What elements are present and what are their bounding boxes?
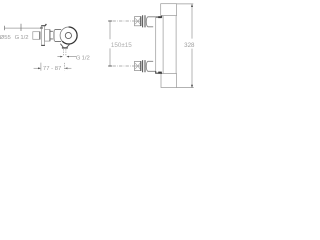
svg-text:150±15: 150±15	[111, 42, 132, 49]
top elbow joint blob	[158, 16, 162, 18]
node tick at G1/2	[20, 24, 22, 31]
outlet dashed thread right	[65, 49, 67, 55]
knob outer circle	[60, 27, 77, 44]
funnel to outlet	[60, 43, 70, 47]
outlet dashed thread left	[62, 49, 64, 55]
bar bottom cap	[161, 74, 177, 88]
bottom s-union cylinder	[146, 61, 155, 71]
top check valve box	[135, 17, 141, 26]
neck	[50, 31, 53, 39]
svg-text:77 - 87: 77 - 87	[43, 66, 61, 72]
extension line bottom	[177, 87, 194, 89]
dim 77-87 right arrow	[65, 67, 68, 69]
bottom check valve box	[135, 61, 141, 70]
dim line 150+-15	[109, 21, 111, 65]
svg-text:G 1/2: G 1/2	[76, 56, 90, 62]
dim tick top 150	[108, 20, 112, 22]
escutcheon plate	[42, 26, 45, 46]
arrow 328 top	[191, 4, 193, 7]
cartridge cylinder	[55, 29, 61, 41]
centerline top inlet	[113, 20, 135, 22]
top union nut plates	[143, 15, 145, 27]
dim line 77-87 left arrow	[34, 67, 40, 69]
node arrow on escutcheon top	[45, 24, 47, 26]
outlet dark bar	[62, 47, 68, 48]
bottom elbow to bar	[156, 71, 162, 73]
knob inner circle	[65, 32, 71, 38]
top s-union cylinder	[146, 17, 155, 27]
dim line 328	[191, 4, 193, 87]
node tick at Ø55	[4, 26, 6, 30]
knob outer circle dark arc	[62, 27, 77, 44]
extension line wall	[40, 63, 42, 71]
outlet centerline dashed	[64, 63, 66, 71]
wall union square	[33, 32, 40, 40]
bottom elbow joint blob	[158, 72, 162, 74]
bottom union nut plates	[143, 60, 145, 72]
node leader end tick	[41, 27, 43, 29]
riser pipe line	[155, 17, 157, 73]
svg-text:G 1/2: G 1/2	[15, 35, 29, 41]
bar top cap	[161, 4, 177, 16]
svg-text:Ø55: Ø55	[0, 35, 11, 41]
dim arrows outlet G1/2	[57, 56, 76, 58]
wire leader line Ø55/G1/2	[5, 27, 42, 29]
svg-text:328: 328	[184, 42, 195, 49]
bar body right edge	[175, 16, 177, 74]
top elbow to bar	[156, 16, 162, 18]
dim tick bottom 150	[108, 65, 112, 67]
centerline bottom inlet	[113, 65, 135, 67]
extension line top	[177, 3, 194, 5]
arrow 328 bottom	[191, 85, 193, 88]
bar body left edge	[162, 16, 164, 74]
body connector rect	[45, 30, 50, 41]
